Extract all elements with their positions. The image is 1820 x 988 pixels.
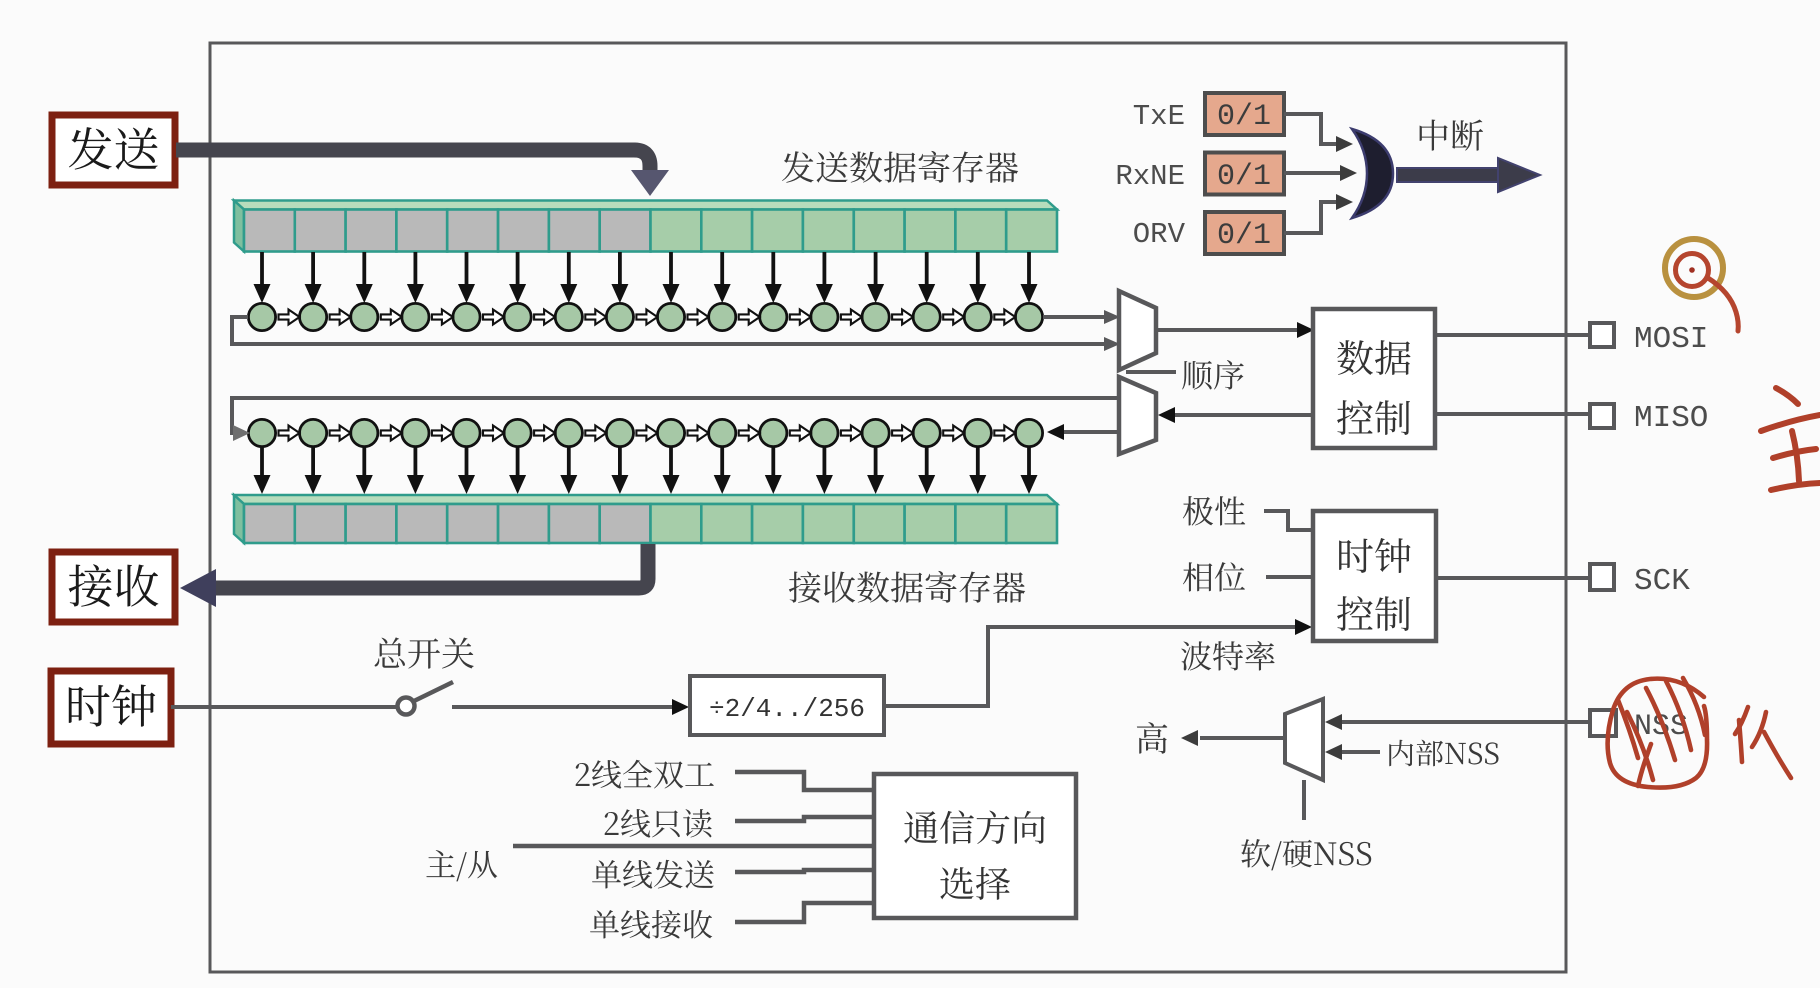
svg-text:MOSI: MOSI <box>1634 322 1708 357</box>
MISO pin label <box>1634 401 1708 436</box>
text 时钟 (block) <box>1339 538 1410 573</box>
MOSI wire <box>1435 333 1588 337</box>
SCK pin label <box>1634 564 1690 599</box>
upper mux output wire to data control <box>1156 322 1314 338</box>
NSS pin square <box>1590 710 1616 736</box>
NSS wire to mux <box>1325 714 1590 730</box>
data control to lower mux wire (MISO path) <box>1158 407 1313 423</box>
svg-text:RxNE: RxNE <box>1115 160 1185 193</box>
thick receive data arrow <box>180 544 648 607</box>
clock control block 时钟控制 <box>1313 511 1436 641</box>
high output wire 高 <box>1181 730 1285 746</box>
NSS mux select wire <box>1302 780 1306 820</box>
NSS source mux <box>1285 699 1323 780</box>
comm direction block 通信方向选择 <box>874 774 1076 918</box>
SCK pin square <box>1590 564 1614 590</box>
SPI peripheral outer boundary box <box>210 43 1566 972</box>
ORV flag 0/1 box <box>1205 212 1284 254</box>
hand-drawn target rings doodle <box>1665 239 1738 331</box>
thick send data arrow <box>176 150 669 196</box>
text 相位 <box>1183 562 1245 591</box>
internal NSS wire <box>1325 744 1380 760</box>
MOSI pin square <box>1590 323 1614 347</box>
hand-drawn scribble over NSS <box>1608 678 1707 788</box>
data control block 数据控制 <box>1313 309 1435 448</box>
text 单线接收 <box>590 910 712 939</box>
text 极性 <box>1183 496 1245 526</box>
svg-text:0/1: 0/1 <box>1217 160 1271 194</box>
svg-text:TxE: TxE <box>1133 100 1185 133</box>
baud divider box ÷2/4../256 <box>690 676 884 735</box>
TxE flag label <box>1133 100 1185 133</box>
text 高 <box>1137 722 1167 754</box>
text 2线只读 <box>605 809 712 837</box>
interrupt OR gate <box>1352 129 1393 218</box>
ORV wire to OR gate <box>1284 194 1353 233</box>
RxNE wire to OR gate <box>1284 165 1357 181</box>
hand-drawn 主 character doodle right edge <box>1761 388 1820 490</box>
transmit shift register cells with load arrows <box>248 252 1042 331</box>
transmit data register 3D register bar <box>234 201 1057 252</box>
text 发送数据寄存器 <box>782 151 1018 183</box>
text 接收 <box>69 564 159 607</box>
text 内部NSS <box>1389 740 1498 767</box>
text 2线全双工 <box>576 760 714 789</box>
single wire receive wire <box>735 903 874 922</box>
text 中断 <box>1420 120 1484 151</box>
NSS pin label <box>1634 710 1688 744</box>
text 顺序 <box>1182 360 1244 390</box>
2-wire full duplex wire <box>735 772 874 790</box>
MISO pin square <box>1590 404 1614 428</box>
lower mux (receive bit order) <box>1119 377 1156 454</box>
text 软/硬NSS <box>1241 839 1371 870</box>
text 数据 <box>1337 340 1410 375</box>
master on/off switch 总开关 <box>398 682 454 715</box>
text 单线发送 <box>592 860 714 889</box>
2-wire read-only wire <box>735 817 874 821</box>
text 控制 <box>1337 400 1410 435</box>
transmit shift register feedback + output wires <box>232 310 1120 351</box>
clock label box 时钟 <box>51 671 171 744</box>
svg-text:0/1: 0/1 <box>1217 100 1271 134</box>
text 波特率 <box>1181 641 1274 671</box>
lower mux output wire into last receive cell <box>1047 424 1119 440</box>
receive data register 3D register bar <box>234 495 1057 543</box>
wire from switch to divider <box>452 699 689 715</box>
send label box 发送 <box>52 115 175 185</box>
mux select stub wire 顺序 <box>1126 370 1176 374</box>
receive shift register input loop wire <box>232 398 1119 441</box>
TxE flag 0/1 box <box>1205 93 1284 135</box>
MISO wire <box>1435 412 1588 416</box>
SCK wire <box>1436 576 1588 580</box>
master/slave wire <box>513 844 874 849</box>
MOSI pin label <box>1634 322 1708 357</box>
receive label box 接收 <box>52 552 175 622</box>
svg-text:0/1: 0/1 <box>1217 219 1271 253</box>
clock wire from 时钟 box to switch <box>171 705 396 709</box>
text 主/从 <box>426 850 497 881</box>
text 时钟 <box>69 684 156 726</box>
hand-drawn 从 character doodle <box>1735 707 1791 778</box>
text 控制 (block) <box>1337 596 1410 631</box>
text 通信方向 <box>904 810 1045 844</box>
RxNE flag 0/1 box <box>1205 153 1284 195</box>
svg-text:÷2/4../256: ÷2/4../256 <box>709 694 865 724</box>
polarity wire <box>1264 511 1313 530</box>
single wire transmit wire <box>735 870 874 872</box>
svg-text:ORV: ORV <box>1133 218 1186 251</box>
svg-text:MISO: MISO <box>1634 401 1708 436</box>
ORV flag label <box>1133 218 1186 251</box>
wire divider to clock control <box>884 619 1312 706</box>
TxE wire to OR gate <box>1284 114 1353 152</box>
receive shift register cells with store arrows <box>248 419 1042 494</box>
text 接收数据寄存器 <box>789 571 1025 603</box>
RxNE flag label <box>1115 160 1185 193</box>
text 发送 <box>69 127 158 170</box>
text 选择 <box>940 867 1010 900</box>
text 总开关 <box>375 637 474 668</box>
svg-text:SCK: SCK <box>1634 564 1690 599</box>
upper mux (transmit bit order) <box>1119 291 1156 370</box>
thick interrupt arrow <box>1397 158 1540 192</box>
phase wire <box>1266 575 1313 579</box>
